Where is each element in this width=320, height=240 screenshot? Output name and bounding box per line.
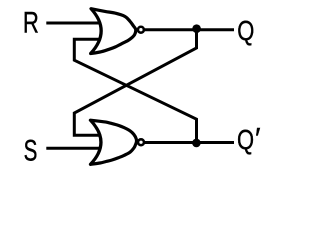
svg-text:Q: Q: [237, 124, 254, 155]
svg-text:′: ′: [255, 122, 261, 155]
svg-text:Q: Q: [237, 16, 254, 47]
svg-text:R: R: [23, 5, 39, 39]
svg-text:S: S: [24, 135, 38, 167]
